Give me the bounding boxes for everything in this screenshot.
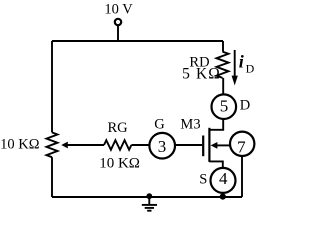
svg-text:D: D <box>240 98 250 114</box>
wire: node 4 to bottom rail <box>222 193 224 197</box>
resistor RD <box>217 52 229 78</box>
wire: drain to node 5 <box>209 119 223 130</box>
wire: source to node 4 <box>209 161 222 168</box>
svg-text:M3: M3 <box>180 117 200 133</box>
body arrow (to node 7) <box>217 144 231 146</box>
svg-text:G: G <box>154 117 165 133</box>
wire: terminal stem <box>117 25 119 41</box>
resistor RG <box>104 140 131 150</box>
node 5 <box>212 94 237 119</box>
svg-text:i: i <box>239 52 244 72</box>
wire: left rail upper <box>51 41 53 132</box>
wiper arrow (pot tap) <box>67 144 105 146</box>
svg-text:5: 5 <box>220 97 229 116</box>
svg-text:10 KΩ: 10 KΩ <box>99 155 140 171</box>
svg-text:5 KΩ: 5 KΩ <box>182 66 221 83</box>
svg-text:D: D <box>246 61 255 75</box>
ground <box>148 197 150 205</box>
junction dot (node 4 / bottom rail) <box>220 194 226 200</box>
wire: top rail to RD <box>222 41 224 52</box>
svg-text:7: 7 <box>237 137 246 156</box>
wire: node 7 down to bottom rail <box>241 156 243 197</box>
junction dot (ground) <box>146 193 152 199</box>
wire: node 3 to gate <box>175 144 202 146</box>
wire: left rail lower <box>51 157 53 197</box>
wire: node 5 to RD <box>222 78 224 94</box>
svg-text:4: 4 <box>219 169 228 188</box>
svg-text:S: S <box>199 172 207 188</box>
wire: top rail <box>52 40 223 42</box>
resistor 10 KΩ potentiometer (left) <box>47 132 58 157</box>
svg-text:10 KΩ: 10 KΩ <box>0 137 40 153</box>
transistor M3 channel bar <box>208 128 210 162</box>
wire: RG to node 3 <box>131 144 149 146</box>
svg-text:3: 3 <box>158 137 167 156</box>
node 7 <box>230 132 254 156</box>
svg-text:RG: RG <box>108 120 129 136</box>
terminal (10V supply) <box>115 19 121 25</box>
wire: bottom rail <box>52 196 242 198</box>
current arrow iD <box>234 50 236 78</box>
transistor M3 gate bar <box>202 136 204 157</box>
node 4 <box>211 168 236 193</box>
node 3 <box>149 133 175 159</box>
svg-text:10 V: 10 V <box>104 2 133 18</box>
